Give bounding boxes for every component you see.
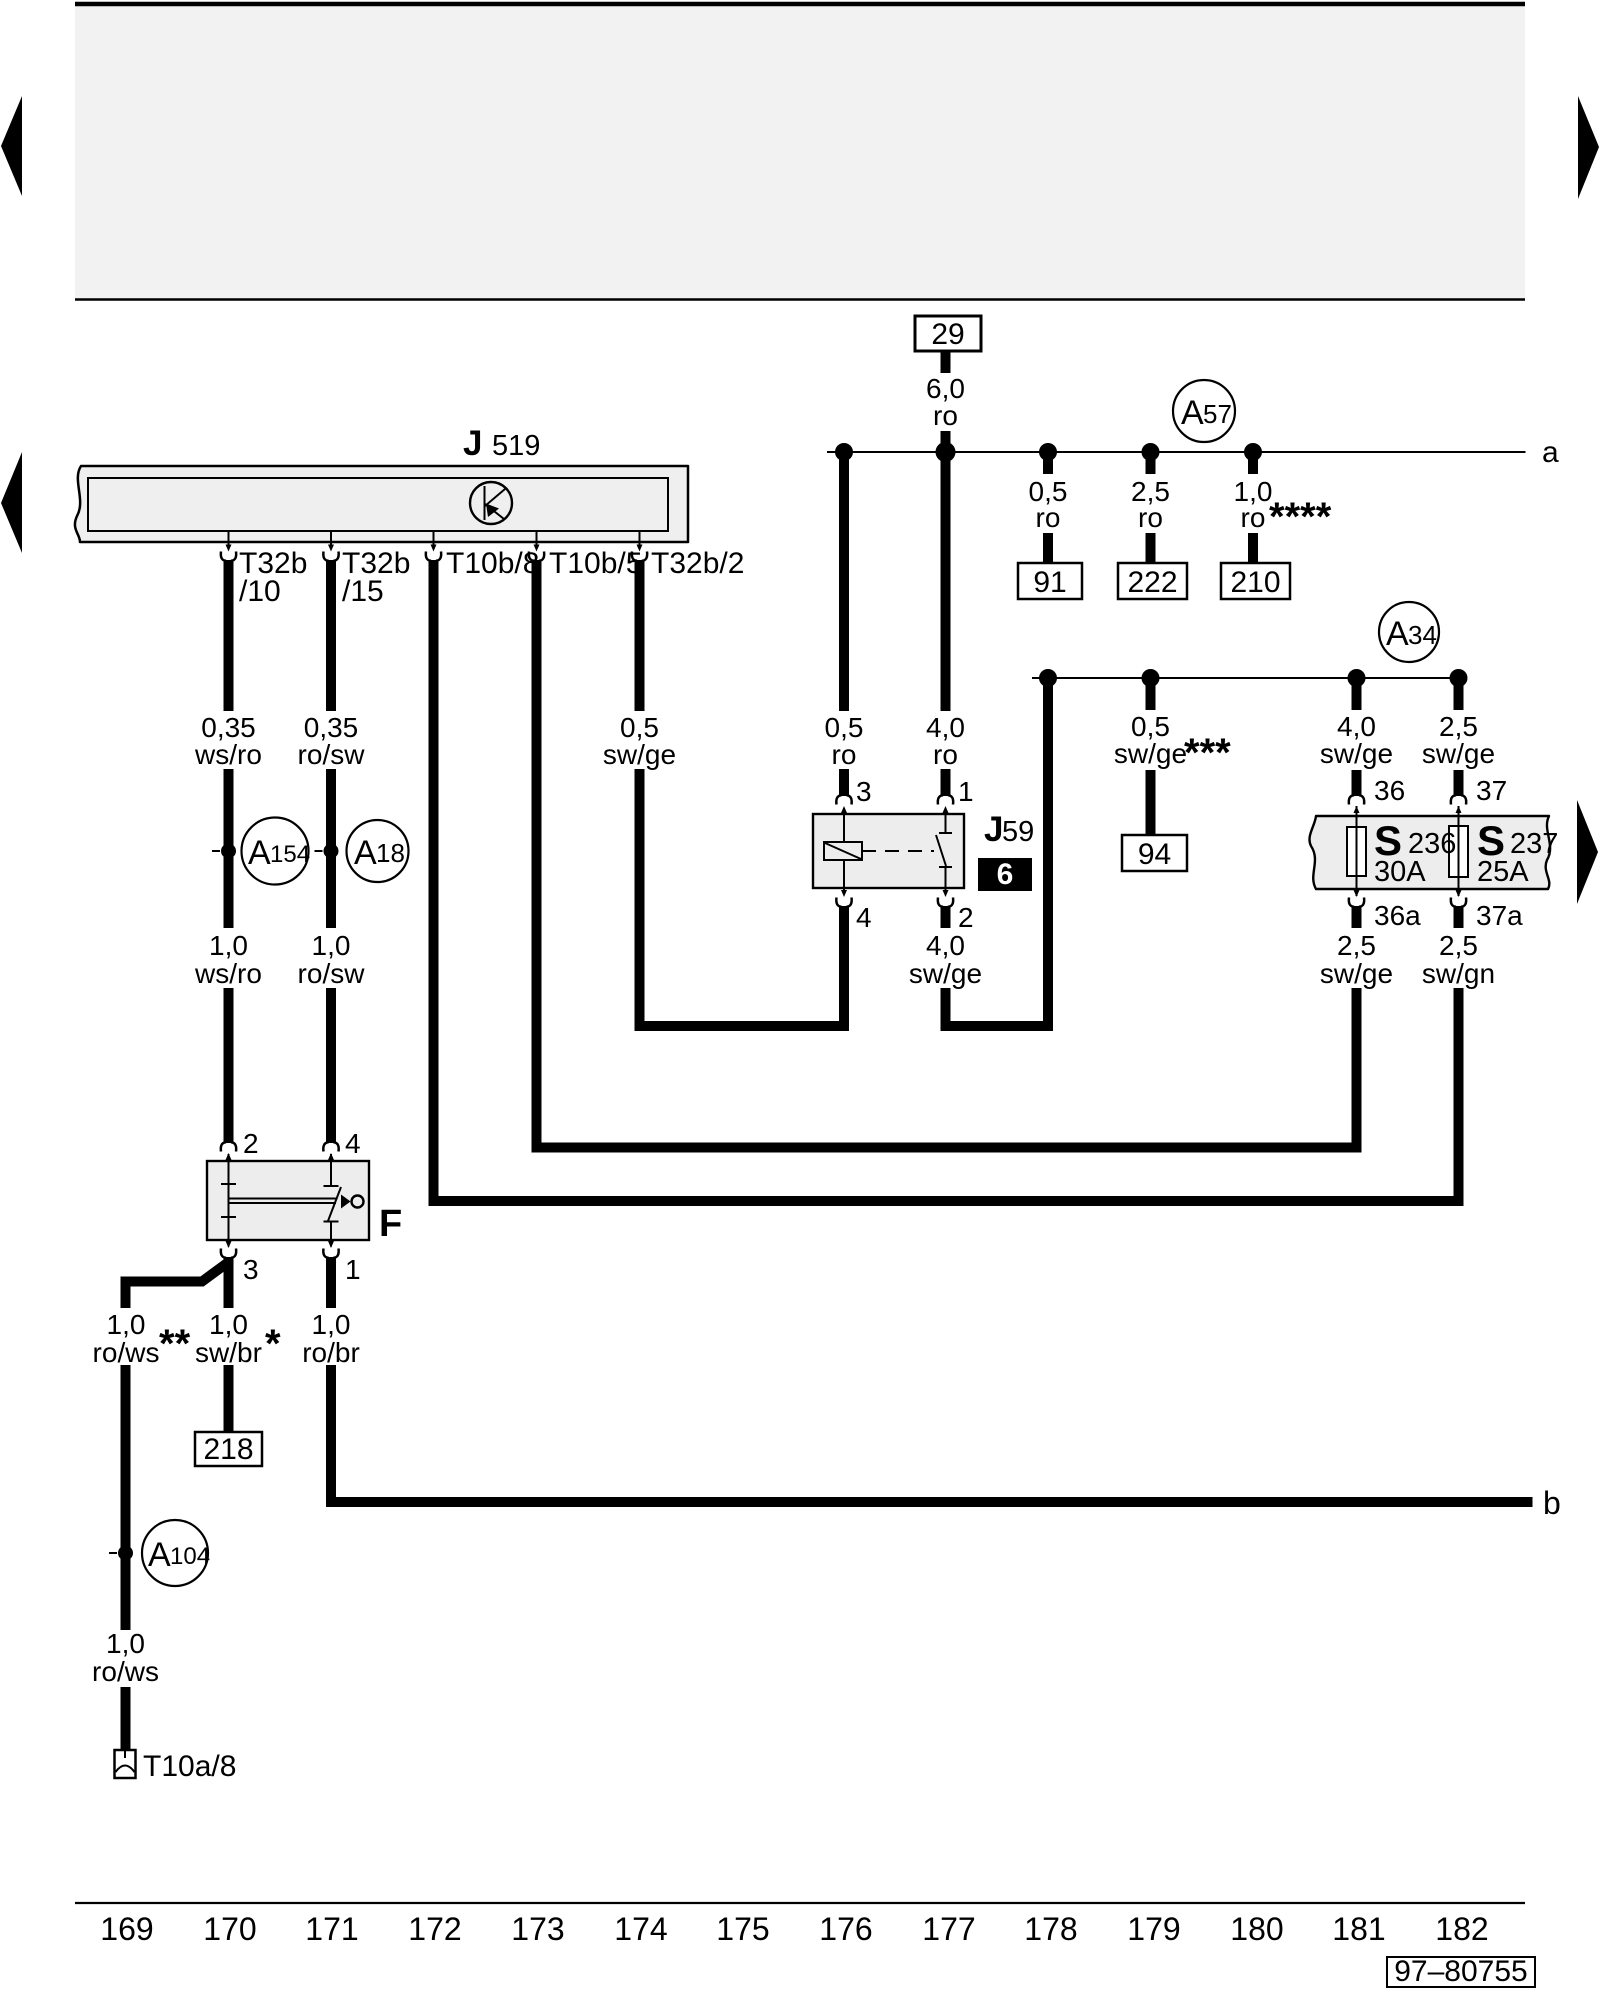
connector A18 (dot, tick, circle) xyxy=(315,820,409,882)
svg-text:T10b/5: T10b/5 xyxy=(549,547,642,580)
J59 pin 3 connector xyxy=(836,795,851,813)
value label 0,5 ro xyxy=(825,712,864,770)
value label 2,5 sw/ge above S237 xyxy=(1422,711,1495,769)
svg-text:1,0: 1,0 xyxy=(106,1628,145,1659)
page edge arrow left top xyxy=(1,96,22,196)
svg-text:ro: ro xyxy=(933,400,958,431)
svg-text:2: 2 xyxy=(243,1128,259,1159)
svg-text:ws/ro: ws/ro xyxy=(194,958,262,989)
svg-text:ro: ro xyxy=(933,739,958,770)
page edge arrow right at fuse row xyxy=(1577,800,1598,904)
svg-text:519: 519 xyxy=(492,430,540,462)
junction dot a-rail/0,5ro xyxy=(835,443,853,461)
value label 0,5 sw/ge*** above 94 xyxy=(1114,711,1231,775)
F pin connectors xyxy=(221,1142,236,1161)
svg-text:T32b/2: T32b/2 xyxy=(651,547,744,580)
svg-text:181: 181 xyxy=(1332,1911,1385,1947)
svg-text:178: 178 xyxy=(1024,1911,1077,1947)
svg-text:F: F xyxy=(379,1203,402,1245)
svg-text:ro/sw: ro/sw xyxy=(298,739,366,770)
svg-text:sw/ge: sw/ge xyxy=(603,739,676,770)
value label 1,0 ro/sw xyxy=(298,930,366,989)
svg-text:****: **** xyxy=(1269,495,1332,539)
svg-text:6: 6 xyxy=(997,858,1014,891)
connector A104 (dot, tick, circle) xyxy=(109,1520,210,1586)
svg-text:210: 210 xyxy=(1230,566,1280,599)
J59 pin 2 connector xyxy=(938,890,953,907)
svg-text:ws/ro: ws/ro xyxy=(194,739,262,770)
svg-text:173: 173 xyxy=(511,1911,564,1947)
svg-text:154: 154 xyxy=(270,841,310,868)
svg-text:ro: ro xyxy=(1138,502,1163,533)
svg-text:2,5: 2,5 xyxy=(1439,930,1478,961)
svg-text:sw/ge: sw/ge xyxy=(909,958,982,989)
terminal 222 box xyxy=(1118,563,1187,599)
terminal T32b/10 xyxy=(221,531,308,608)
value label 4,0 sw/ge above S236 xyxy=(1320,711,1393,769)
svg-text:172: 172 xyxy=(408,1911,461,1947)
junction dot A34/94 xyxy=(1142,669,1160,687)
svg-text:/10: /10 xyxy=(239,575,281,608)
wire from J519 T10b/5 to fuse S236 pin 36a xyxy=(537,560,1357,1148)
connector A154 (dot, tick, circle) xyxy=(212,818,310,885)
track numbers xyxy=(100,1911,1488,1947)
svg-text:1,0: 1,0 xyxy=(312,930,351,961)
wire 0,5 sw/ge from rail A34 to terminal 94 xyxy=(1146,678,1156,835)
svg-text:2,5: 2,5 xyxy=(1337,930,1376,961)
svg-text:104: 104 xyxy=(170,1543,210,1570)
svg-text:b: b xyxy=(1543,1485,1561,1521)
terminal T10b/5 xyxy=(529,531,643,580)
brake light switch F body xyxy=(207,1161,369,1240)
svg-text:***: *** xyxy=(1184,731,1231,775)
svg-text:1: 1 xyxy=(958,776,974,807)
junction dot A34/S237 xyxy=(1450,669,1468,687)
value label 1,0 ro/ws at A104 xyxy=(92,1628,159,1687)
svg-text:36a: 36a xyxy=(1374,900,1421,931)
value label 1,0 sw/br* xyxy=(195,1309,281,1368)
svg-text:sw/ge: sw/ge xyxy=(1422,738,1495,769)
svg-text:sw/ge: sw/ge xyxy=(1114,738,1187,769)
svg-text:J: J xyxy=(984,810,1003,849)
svg-text:37a: 37a xyxy=(1476,900,1523,931)
terminal 91 box xyxy=(1018,563,1082,599)
svg-text:37: 37 xyxy=(1476,775,1507,806)
value label 2,5 sw/ge below S236 xyxy=(1320,930,1393,989)
rail A34 xyxy=(1032,677,1461,679)
svg-text:57: 57 xyxy=(1203,399,1232,429)
terminal 29 box xyxy=(915,316,981,351)
svg-text:175: 175 xyxy=(716,1911,769,1947)
page edge arrow right top xyxy=(1578,96,1599,199)
wire 1,0 ro/br from F pin 1 to rail b xyxy=(331,1257,1533,1502)
terminal 210 box xyxy=(1221,563,1290,599)
svg-text:4: 4 xyxy=(345,1128,361,1159)
value label 0,35 ro/sw xyxy=(298,712,366,770)
value label 4,0 ro xyxy=(926,712,965,770)
svg-text:ro: ro xyxy=(832,739,857,770)
svg-text:1,0: 1,0 xyxy=(209,930,248,961)
value label 6,0 ro xyxy=(926,373,965,431)
wire 0,5 sw/ge from J519 T32b/2 to relay J59 pin 4 xyxy=(640,560,845,1026)
svg-text:ro/ws: ro/ws xyxy=(92,1656,159,1687)
wire 0,5 ro from rail a to relay J59 pin 3 xyxy=(839,452,849,796)
wire 1,0 ro from rail a to terminal 210 xyxy=(1248,452,1258,563)
value label 0,5 ro above 91 xyxy=(1029,476,1068,533)
terminal T32b/15 xyxy=(323,531,410,608)
svg-text:1,0: 1,0 xyxy=(312,1309,351,1340)
svg-text:1: 1 xyxy=(345,1254,361,1285)
F internals xyxy=(221,1161,364,1240)
svg-text:182: 182 xyxy=(1435,1911,1488,1947)
svg-text:A: A xyxy=(354,834,377,872)
wire 0,35/1,0 ws/ro from J519 T32b/10 to F pin 2 xyxy=(224,560,234,1143)
svg-text:*: * xyxy=(265,1322,281,1366)
wire from J519 T10b/8 to fuse S237 pin 37a xyxy=(434,560,1459,1201)
svg-text:4,0: 4,0 xyxy=(926,930,965,961)
wire 4,0 sw/ge from rail A34 to fuse S236 pin 36 xyxy=(1352,678,1362,796)
svg-text:sw/ge: sw/ge xyxy=(1320,738,1393,769)
wire 0,35/1,0 ro/sw from J519 T32b/15 to F pin 4 xyxy=(326,560,336,1143)
terminal T10b/8 xyxy=(426,531,540,580)
J59 coil xyxy=(824,808,862,894)
fuse S236 element xyxy=(1347,806,1366,896)
J59 switch contact xyxy=(936,808,952,894)
wire 1,0 sw/br from F pin 3 to terminal 218 xyxy=(224,1257,234,1432)
page edge arrow left middle xyxy=(1,452,22,553)
svg-text:sw/gn: sw/gn xyxy=(1422,958,1495,989)
svg-text:a: a xyxy=(1542,436,1559,469)
svg-text:169: 169 xyxy=(100,1911,153,1947)
connector circle A57 xyxy=(1173,380,1235,442)
svg-text:177: 177 xyxy=(922,1911,975,1947)
J59 pin 4 connector xyxy=(836,890,851,907)
terminal 94 box xyxy=(1122,835,1187,871)
svg-text:**: ** xyxy=(159,1322,191,1366)
svg-text:ro: ro xyxy=(1036,502,1061,533)
junction dot a-rail/222 xyxy=(1142,443,1160,461)
svg-text:2: 2 xyxy=(958,902,974,933)
svg-text:94: 94 xyxy=(1138,838,1171,871)
fuse box S236/S237 body xyxy=(1309,816,1550,889)
junction dot a-rail/210 xyxy=(1244,443,1262,461)
svg-text:A: A xyxy=(1386,615,1409,653)
value label 2,5 sw/gn below S237 xyxy=(1422,930,1495,989)
value label 1,0 ro/br xyxy=(302,1309,360,1368)
svg-text:25A: 25A xyxy=(1477,856,1529,888)
svg-text:29: 29 xyxy=(931,318,964,351)
svg-text:4: 4 xyxy=(856,902,872,933)
svg-text:ro: ro xyxy=(1241,502,1266,533)
relay J59 body xyxy=(813,814,964,888)
value label 2,5 ro above 222 xyxy=(1131,476,1170,533)
svg-text:18: 18 xyxy=(376,838,405,868)
svg-text:36: 36 xyxy=(1374,775,1405,806)
wire 6,0/4,0 ro from terminal 29 to relay J59 pin 1 xyxy=(941,351,951,796)
svg-text:ro/br: ro/br xyxy=(302,1337,360,1368)
svg-text:A: A xyxy=(248,834,271,872)
svg-text:218: 218 xyxy=(203,1433,253,1466)
J59 dashed link xyxy=(862,850,934,852)
svg-text:222: 222 xyxy=(1127,566,1177,599)
wire 4,0 sw/ge from relay J59 pin 2 to node A34 xyxy=(946,678,1049,1026)
svg-text:ro/sw: ro/sw xyxy=(298,958,366,989)
header panel xyxy=(75,3,1525,300)
wire 1,0 ro/ws from F pin 3 branch to connector T10a/8 xyxy=(126,1257,229,1749)
svg-text:ro/ws: ro/ws xyxy=(93,1337,160,1368)
svg-text:91: 91 xyxy=(1033,566,1066,599)
wire 2,5 ro from rail a to terminal 222 xyxy=(1146,452,1156,563)
svg-text:170: 170 xyxy=(203,1911,256,1947)
value label 0,5 sw/ge xyxy=(603,712,676,770)
value label 0,35 ws/ro xyxy=(194,712,262,770)
control unit J519 body xyxy=(75,466,688,542)
J519 odometer symbol xyxy=(470,482,512,524)
label masks xyxy=(92,373,1499,1687)
svg-text:180: 180 xyxy=(1230,1911,1283,1947)
svg-text:179: 179 xyxy=(1127,1911,1180,1947)
value label 1,0 ws/ro xyxy=(194,930,262,989)
svg-text:1,0: 1,0 xyxy=(107,1309,146,1340)
connector T10a/8 symbol xyxy=(115,1750,237,1783)
svg-text:59: 59 xyxy=(1002,816,1034,848)
svg-text:174: 174 xyxy=(614,1911,667,1947)
connector circle A34 xyxy=(1379,602,1439,662)
fuse S237 element xyxy=(1449,806,1468,896)
J59 current track box 6 xyxy=(978,858,1032,891)
svg-text:/15: /15 xyxy=(342,575,384,608)
terminal T32b/2 xyxy=(632,531,745,580)
svg-text:sw/ge: sw/ge xyxy=(1320,958,1393,989)
svg-text:A: A xyxy=(148,1536,171,1574)
svg-text:J: J xyxy=(463,424,482,463)
junction dot a-rail/6,0ro xyxy=(936,442,956,462)
wire 0,5 ro from rail a to terminal 91 xyxy=(1043,452,1053,563)
value label 1,0 ro/ws** xyxy=(93,1309,191,1368)
junction dot A34/relay wire xyxy=(1039,669,1057,687)
svg-text:T10a/8: T10a/8 xyxy=(143,1750,236,1783)
diagram number box 97-80755 xyxy=(1387,1955,1535,1988)
rail a xyxy=(827,451,1526,453)
junction dot A34/S236 xyxy=(1348,669,1366,687)
svg-text:34: 34 xyxy=(1408,620,1437,650)
svg-text:30A: 30A xyxy=(1374,856,1426,888)
svg-text:sw/br: sw/br xyxy=(195,1337,262,1368)
svg-text:T10b/8: T10b/8 xyxy=(446,547,539,580)
value label 4,0 sw/ge below relay xyxy=(909,930,982,989)
junction dot a-rail/91 xyxy=(1039,443,1057,461)
fuse pin connectors xyxy=(1349,795,1364,813)
J59 pin 1 connector xyxy=(938,795,953,813)
svg-text:176: 176 xyxy=(819,1911,872,1947)
svg-text:3: 3 xyxy=(243,1254,259,1285)
terminal 218 box xyxy=(195,1432,262,1466)
svg-text:1,0: 1,0 xyxy=(209,1309,248,1340)
svg-text:97–80755: 97–80755 xyxy=(1394,1955,1527,1988)
bottom scale line xyxy=(75,1902,1525,1904)
wire 2,5 sw/ge from rail A34 to fuse S237 pin 37 xyxy=(1454,678,1464,796)
svg-text:A: A xyxy=(1181,394,1204,432)
svg-text:3: 3 xyxy=(856,776,872,807)
svg-text:171: 171 xyxy=(305,1911,358,1947)
